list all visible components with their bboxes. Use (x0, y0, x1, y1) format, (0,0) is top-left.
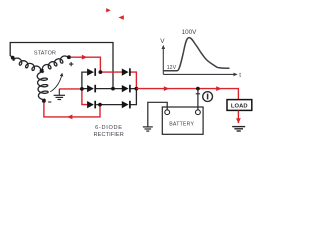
svg-text:BATTERY: BATTERY (169, 121, 194, 127)
wire: red load return to ground with arrow (236, 110, 241, 123)
svg-text:6-DIODE: 6-DIODE (95, 125, 123, 131)
svg-text:t: t (239, 72, 241, 79)
diode D6 (row3 right) (122, 101, 130, 109)
graph: V axis with up arrow (162, 45, 166, 75)
graph: label V (160, 38, 165, 45)
wire: black row2 (D2 anode stub, cathode to junction to D5) (82, 88, 122, 90)
diode D1 (row1 left) (87, 68, 95, 76)
diode D2 (row2 left) (87, 85, 95, 93)
battery box (162, 107, 203, 134)
svg-text:STATOR: STATOR (34, 51, 56, 57)
rotation arrow inside stator (50, 73, 63, 92)
ground symbol G2 (battery) (143, 127, 153, 131)
wire: black - bus upper segment (row1 to row2) with D1 anode stub (82, 72, 88, 89)
battery terminal post (left) (165, 110, 170, 115)
ground symbol G1 (rectifier negative) (54, 89, 65, 100)
load box (227, 100, 252, 111)
stray red arrow marker top (left-pointing) (118, 15, 123, 19)
diode D4 (row1 right) (122, 68, 130, 76)
wire: stator frame top (terminal A loop to rectifier phase B) (10, 43, 113, 89)
svg-text:LOAD: LOAD (231, 103, 248, 109)
wire: black row3 (D3 cathode to junction to D6 anode) (96, 104, 122, 106)
wire: red row1 (junction to D4 anode) (100, 71, 122, 73)
graph: label 12V (167, 65, 177, 71)
wire: - bus red segment down to row3 and D3 anode stub (82, 89, 88, 105)
svg-text:12V: 12V (167, 65, 177, 71)
node: stator neutral center (40, 69, 44, 73)
node: row3 phase junction (98, 103, 102, 107)
wire: red return (row3 junction down, left to stator -) (44, 103, 100, 120)
node: stator terminal C (bottom, -) (42, 99, 46, 103)
svg-text:V: V (160, 38, 165, 45)
label STATOR (34, 51, 56, 57)
label + at terminal B (69, 62, 73, 66)
ground symbol G3 (load) (232, 127, 245, 131)
diode D5 (row2 right) (122, 85, 130, 93)
graph: voltage spike curve (163, 38, 229, 71)
label - at terminal C (48, 101, 51, 103)
svg-text:RECTIFIER: RECTIFIER (93, 132, 123, 138)
graph: label 100V (182, 29, 198, 36)
wire: red row1 D4 cathode to + bus, bus down to output node (130, 72, 136, 89)
stator winding phase 3 (vertical coil) (37, 72, 48, 100)
node: negative bus / ground junction (80, 87, 84, 91)
stator winding phase 2 (top-right coil) (42, 56, 68, 70)
ammeter probe circle with current arrow (203, 92, 213, 102)
wire: battery negative lead to ground (148, 102, 167, 126)
stray red arrow marker top (right-pointing) (106, 8, 111, 12)
node: positive bus output junction (135, 87, 139, 91)
wire: battery positive lead (junction down to terminal) (196, 89, 200, 110)
node: stator terminal B (top-right, +) (67, 55, 71, 59)
graph: label t (239, 72, 241, 79)
wire: red phase A feed (stator + to row1 junction) (71, 55, 101, 72)
battery terminal post (right) (196, 110, 201, 115)
svg-text:100V: 100V (182, 29, 198, 36)
label LOAD (231, 103, 248, 109)
label 6-DIODE RECTIFIER (93, 125, 123, 138)
node: row2 phase junction (111, 87, 115, 91)
stator winding phase 1 (top-left coil) (13, 58, 41, 72)
label BATTERY (169, 121, 194, 127)
diode D3 (row3 left) (87, 101, 95, 109)
node: stator terminal A (top-left) (11, 56, 15, 60)
wire: ground to - bus (red) (59, 88, 82, 90)
wire: black + bus lower segment (row2 to row3) with D5,D6 cathode stubs (130, 89, 136, 105)
wire: red DC output (+ bus to load corner) (136, 86, 238, 99)
node: row1 phase junction (99, 70, 103, 74)
node: battery tap junction (196, 87, 200, 91)
graph: t axis with right arrow (163, 73, 237, 77)
